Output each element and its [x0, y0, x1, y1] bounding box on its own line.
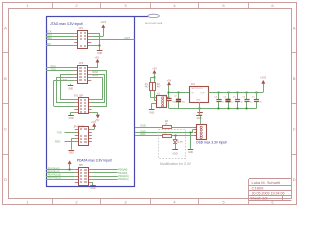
- wire TDO: [46, 36, 74, 38]
- junction C4 bottom: [228, 108, 230, 110]
- wire R2 bottom: [154, 91, 156, 101]
- wire RXD JP4: [65, 141, 75, 143]
- wire loop 1: [60, 74, 74, 100]
- wire +3V3 net to box edge: [91, 39, 134, 41]
- frame column ticks bottom: [53, 199, 249, 205]
- svg-text:IC1: IC1: [191, 82, 196, 86]
- frame column numbers bottom: [26, 200, 274, 205]
- svg-text:LED: LED: [179, 142, 184, 144]
- svg-text:PDATA max 3.3V input!: PDATA max 3.3V input!: [77, 159, 112, 163]
- junction C5 top: [237, 92, 239, 94]
- wire to R2 top: [154, 77, 156, 82]
- wire bus right 3: [91, 77, 102, 100]
- wire PD3(A11): [92, 179, 118, 181]
- supply +5V arrow main: [153, 70, 156, 73]
- wire ground rail: [169, 108, 257, 110]
- svg-text:GND: GND: [197, 118, 202, 120]
- svg-text:PD3(A11): PD3(A11): [118, 178, 129, 181]
- wire PD0(A8): [92, 169, 118, 171]
- connector JP2: [74, 66, 91, 84]
- svg-text:Luka M. Schuetl: Luka M. Schuetl: [252, 180, 281, 185]
- wire loop 2: [57, 77, 75, 103]
- wire up to pin2: [193, 130, 194, 133]
- wire input rail: [169, 92, 190, 94]
- wire RXD: [46, 67, 74, 69]
- svg-text:GND: GND: [68, 118, 73, 120]
- junction C4 top: [228, 92, 230, 94]
- capacitor C2: [178, 92, 180, 99]
- svg-text:C1809: C1809: [252, 185, 265, 190]
- wire PDATA0(8): [46, 169, 75, 171]
- wire JP2 pin2 to +5V: [91, 62, 97, 68]
- svg-text:MIC5219 3.3: MIC5219 3.3: [192, 88, 204, 90]
- svg-text:PDATA3(11): PDATA3(11): [48, 177, 61, 180]
- capacitor C5: [237, 92, 239, 99]
- junction R1R2 top: [154, 77, 156, 79]
- junction OSD gnd drop: [190, 132, 192, 134]
- svg-text:+3V3: +3V3: [91, 122, 97, 124]
- capacitor C4: [228, 92, 230, 99]
- wire JP1 pin10: [91, 45, 99, 47]
- svg-text:MOSI: MOSI: [92, 75, 98, 77]
- svg-text:TDI: TDI: [46, 42, 50, 46]
- resistor R2: [153, 83, 156, 91]
- svg-text:D: D: [4, 177, 7, 182]
- wire TXD: [46, 70, 74, 72]
- svg-text:JP2: JP2: [79, 61, 84, 65]
- resistor R4: [163, 135, 172, 138]
- svg-text:JP5: JP5: [79, 164, 84, 167]
- svg-text:+5V: +5V: [95, 57, 100, 60]
- ground X1: [149, 110, 155, 115]
- wire loop 3: [54, 80, 75, 106]
- junction IC1 gnd: [199, 108, 201, 110]
- ground JP1: [97, 51, 103, 56]
- wire TCK: [46, 33, 74, 35]
- svg-text:OSD max 3.3V input!: OSD max 3.3V input!: [196, 140, 227, 144]
- svg-text:D: D: [293, 177, 296, 182]
- supply +3V3 arrow JP1: [102, 25, 105, 28]
- capacitor C7: [256, 92, 258, 99]
- wire output rail: [208, 92, 263, 94]
- svg-text:JTAG max 3.3V input!: JTAG max 3.3V input!: [50, 22, 83, 26]
- svg-text:B: B: [293, 76, 296, 81]
- frame row letters left: [4, 26, 7, 183]
- wire X1 pin1 right: [167, 97, 169, 99]
- svg-text:JP1: JP1: [79, 27, 84, 30]
- svg-text:+3V3: +3V3: [100, 21, 107, 24]
- svg-text:+3V3: +3V3: [61, 79, 67, 82]
- op-amp IC1 box: [190, 87, 209, 103]
- LED D1: [173, 140, 178, 144]
- svg-text:MISO: MISO: [92, 72, 98, 74]
- supply +3V3 arrow out: [262, 80, 265, 83]
- junction rail in: [168, 92, 170, 94]
- wire IC1 to ground: [199, 102, 201, 115]
- wire PD2(A10): [92, 176, 118, 178]
- svg-text:GND: GND: [188, 152, 193, 154]
- svg-text:GND: GND: [173, 153, 178, 155]
- wire X1 pin3 ground: [152, 103, 157, 109]
- blue group box: [47, 17, 135, 187]
- frame row letters right: [293, 26, 296, 183]
- junction LED tap: [175, 135, 177, 137]
- wire +5V reg down: [168, 85, 170, 98]
- wire PDATA1(9): [46, 172, 75, 174]
- wire PDATA2(10): [46, 176, 75, 178]
- title block box: [249, 179, 292, 201]
- wire TMS: [46, 39, 74, 41]
- svg-text:+3V3: +3V3: [260, 76, 267, 80]
- supply +3V3 arrow JP5: [68, 161, 71, 170]
- svg-text:A: A: [293, 26, 296, 31]
- junction C6 top: [246, 92, 248, 94]
- junction C5 bottom: [237, 108, 239, 110]
- ground OSD wire2: [188, 150, 194, 155]
- wire +5V down: [154, 73, 156, 77]
- junction C7 top: [256, 92, 258, 94]
- svg-text:Modification for 3.3V: Modification for 3.3V: [160, 162, 192, 166]
- wire JP4 to +3V3: [92, 127, 95, 130]
- svg-text:Sheet: 2/2: Sheet: 2/2: [250, 196, 267, 200]
- junction C2 top: [178, 92, 180, 94]
- frame row ticks right: [291, 53, 297, 155]
- wire LED to ground: [175, 143, 177, 149]
- supply +5V arrow reg: [167, 82, 170, 85]
- wire JP1 pin1 down: [91, 33, 99, 45]
- wire to gnd JP1: [99, 46, 101, 50]
- wire OSD 1: [135, 127, 162, 129]
- supply +5V arrow down SV1: [96, 115, 99, 118]
- ground X2 top flipped: [197, 113, 203, 125]
- svg-text:GND: GND: [149, 112, 154, 114]
- capacitor C3: [218, 92, 220, 99]
- resistor R1: [150, 83, 153, 91]
- junction JP5 supply: [69, 169, 71, 171]
- svg-text:RXD: RXD: [140, 133, 145, 136]
- svg-text:GND: GND: [69, 153, 74, 155]
- ground IC1: [196, 116, 202, 120]
- svg-text:RXD: RXD: [55, 141, 60, 144]
- ground JP4: [69, 139, 75, 155]
- wire bus right 1: [91, 71, 107, 107]
- wire to ground OSD: [190, 133, 192, 149]
- svg-text:+5V: +5V: [167, 78, 172, 82]
- svg-text:GND: GND: [68, 88, 73, 90]
- wire PD1(A9): [92, 172, 118, 174]
- frame column ticks top: [53, 2, 249, 8]
- svg-text:+3V3: +3V3: [124, 37, 131, 40]
- frame column numbers top: [26, 3, 274, 8]
- connector JP4: [75, 127, 92, 146]
- svg-text:TMS: TMS: [46, 36, 52, 40]
- supply +3V3 arrow JP4: [93, 123, 96, 126]
- svg-text:C: C: [293, 127, 296, 132]
- wire to +3V3 out: [263, 84, 265, 93]
- frame inner border: [9, 9, 292, 199]
- junction C3 top: [218, 92, 220, 94]
- svg-text:OSD: OSD: [140, 125, 146, 128]
- wire bus right 2: [91, 74, 104, 103]
- svg-text:+5V: +5V: [152, 66, 157, 70]
- connector JP5: [75, 168, 92, 186]
- wire R4 to X2: [171, 135, 194, 137]
- wire OSD 2 GND: [135, 132, 193, 134]
- wire PDATA3(11): [46, 179, 75, 181]
- svg-text:GND: GND: [90, 188, 95, 190]
- junction JP1 gnd: [99, 45, 101, 47]
- svg-text:A: A: [4, 26, 7, 31]
- frame row ticks left: [2, 53, 8, 155]
- svg-text:30.05.2009 19:34:06: 30.05.2009 19:34:06: [252, 192, 285, 196]
- wire JP1 pin2 to +3V3: [91, 28, 103, 37]
- wire to R1 top: [151, 77, 155, 82]
- svg-text:RECEIVER DATA: RECEIVER DATA: [145, 22, 163, 25]
- wire to LED: [175, 136, 177, 140]
- svg-text:C: C: [4, 127, 7, 132]
- ground LED: [172, 150, 178, 156]
- junction C3 bottom: [218, 108, 220, 110]
- frame outer border: [3, 3, 297, 205]
- wire TXD JP4: [65, 132, 75, 134]
- capacitor C1: [168, 98, 170, 99]
- blue tab line: [135, 16, 149, 18]
- connector X2 OSD: [194, 125, 207, 140]
- junction X1 out: [168, 97, 170, 99]
- dashed modification box: [159, 130, 186, 159]
- ground SV1: [68, 112, 74, 120]
- svg-text:GND: GND: [196, 100, 201, 102]
- capacitor C6: [246, 92, 248, 99]
- junction C6 bottom: [246, 108, 248, 110]
- ground JP5: [90, 182, 96, 190]
- svg-text:B: B: [4, 76, 7, 81]
- wire OSD 3: [135, 135, 162, 137]
- ground JP2: [68, 84, 74, 91]
- wire R3 to X2: [171, 127, 194, 129]
- wire R1 bottom: [151, 91, 157, 98]
- connector SV1: [74, 98, 91, 114]
- resistor R3: [163, 126, 172, 129]
- wire TDI: [46, 45, 74, 47]
- connector X1: [157, 96, 167, 108]
- tab oval: [148, 14, 160, 17]
- wire SV1 to +5V: [92, 112, 98, 115]
- svg-text:GND: GND: [97, 53, 102, 55]
- svg-text:TXD: TXD: [57, 131, 62, 134]
- svg-text:TXD: TXD: [51, 68, 56, 71]
- connector JP1: [74, 31, 91, 49]
- supply +5V arrow JP2: [96, 59, 99, 62]
